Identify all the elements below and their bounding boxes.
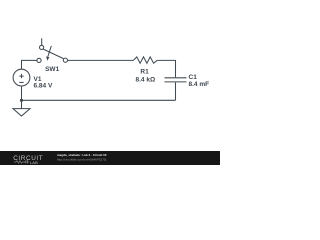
wire bottom horizontal: [22, 99, 176, 101]
wire ground stem: [21, 100, 23, 108]
wire top-left horizontal to switch: [21, 59, 37, 61]
svg-text:SW1: SW1: [45, 66, 59, 73]
V1 minus sign: [19, 81, 23, 83]
wire resistor to top-right corner and down: [157, 60, 175, 77]
svg-text:8.4 mF: 8.4 mF: [189, 81, 210, 88]
logo resistor squiggle: [14, 160, 29, 163]
footer bar: [0, 151, 220, 165]
svg-text:8.4 kΩ: 8.4 kΩ: [136, 76, 156, 83]
node junction at V1 bottom: [20, 99, 23, 102]
switch SW1: [37, 38, 68, 62]
svg-text:LAB: LAB: [30, 160, 38, 165]
V1 plus sign: [19, 74, 23, 78]
svg-text:http://circuitlab.com/cmn6tb46: http://circuitlab.com/cmn6tb46P5273j: [57, 158, 107, 162]
voltage source V1: [13, 69, 30, 86]
svg-text:CIRCUIT: CIRCUIT: [13, 155, 43, 162]
svg-text:magda_shehata : Lab 3 - Circui: magda_shehata : Lab 3 - Circuit #2: [57, 153, 107, 157]
wire left vertical (V1 top lead up to corner): [21, 60, 23, 69]
wire top stub of SW1: [41, 38, 43, 45]
switch left terminal circle: [37, 58, 41, 62]
switch blade: [43, 49, 63, 59]
ground symbol: [13, 109, 30, 116]
wire capacitor down to bottom-right corner: [175, 82, 177, 100]
wire switch to resistor: [68, 59, 134, 61]
capacitor C1 bottom plate: [165, 81, 187, 83]
wire V1 bottom lead: [21, 86, 23, 100]
switch right terminal circle: [63, 58, 67, 62]
svg-text:C1: C1: [189, 74, 198, 81]
capacitor C1 top plate: [165, 77, 187, 79]
switch top terminal circle: [40, 45, 44, 49]
resistor R1 zigzag: [134, 57, 158, 63]
svg-text:6.84 V: 6.84 V: [34, 82, 53, 89]
switch actuator arrow: [48, 46, 51, 57]
svg-text:R1: R1: [140, 68, 149, 75]
CircuitLab logo wordmark: [13, 155, 43, 165]
